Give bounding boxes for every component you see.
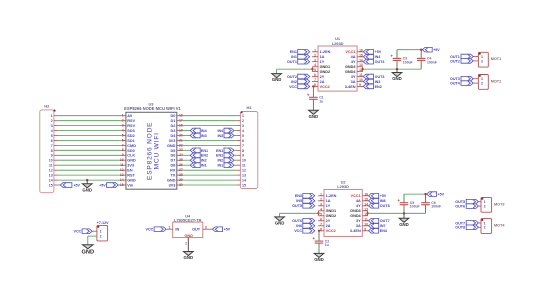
port IN4 (from U3) xyxy=(190,128,207,133)
svg-text:4Y: 4Y xyxy=(351,60,356,64)
svg-text:100nF: 100nF xyxy=(427,60,437,64)
svg-text:+5V: +5V xyxy=(433,48,440,52)
H2 pin stubs xyxy=(54,116,58,185)
+5V flag at U3 Vin xyxy=(99,183,122,188)
svg-text:1: 1 xyxy=(484,200,486,204)
svg-text:D1: D1 xyxy=(171,119,176,123)
svg-text:D8: D8 xyxy=(171,164,176,168)
+5V flag at top rail xyxy=(422,47,440,52)
svg-text:OUT2: OUT2 xyxy=(450,59,460,63)
wire H2 pin 9 to U3 pin 9 xyxy=(58,154,122,156)
svg-text:1-2EN: 1-2EN xyxy=(320,50,331,54)
wire H2 pin 6 to U3 pin 6 xyxy=(58,139,122,141)
svg-text:D6: D6 xyxy=(171,154,176,158)
port EN1 (from U3) xyxy=(190,148,208,153)
wire U3 pin 24 to port EN2 xyxy=(182,154,191,156)
svg-text:GND2: GND2 xyxy=(320,70,331,74)
+5V flag at H2 pin 15 xyxy=(58,183,81,188)
svg-text:OUT8: OUT8 xyxy=(455,226,465,230)
wire U3 pin 20 to port IN3 xyxy=(182,135,191,137)
wire U3 pin 21 to H1 pin 6 xyxy=(182,139,237,141)
svg-text:8: 8 xyxy=(242,149,244,153)
port IN8 at U2 xyxy=(369,199,386,204)
svg-text:+5V: +5V xyxy=(99,183,106,187)
wire H2 pin 8 to U3 pin 8 xyxy=(58,149,122,151)
svg-text:8: 8 xyxy=(51,149,53,153)
svg-text:1: 1 xyxy=(242,114,244,118)
svg-text:2: 2 xyxy=(484,205,486,209)
svg-text:D5: D5 xyxy=(171,149,176,153)
port VCC at U4 input xyxy=(146,227,167,232)
svg-text:9: 9 xyxy=(242,154,244,158)
svg-text:OUT5: OUT5 xyxy=(455,200,465,204)
svg-text:VCC: VCC xyxy=(74,230,82,234)
wire +5V top rail xyxy=(397,49,421,51)
wire U3 pin 28 to H1 pin 13 xyxy=(182,174,237,176)
svg-text:RSV: RSV xyxy=(127,124,135,128)
svg-text:15: 15 xyxy=(242,183,246,187)
svg-text:3-4EN: 3-4EN xyxy=(350,229,361,233)
port VCC at U1 xyxy=(289,84,310,89)
capacitor C1 1u xyxy=(307,86,324,110)
port IN1 (to H1) xyxy=(217,163,234,168)
svg-text:GND: GND xyxy=(82,187,92,192)
svg-text:GND4: GND4 xyxy=(345,70,356,74)
port EN3 at U2 xyxy=(295,194,315,199)
svg-text:1Y: 1Y xyxy=(320,60,325,64)
port IN1 at U1 xyxy=(291,55,310,60)
svg-text:3-4EN: 3-4EN xyxy=(345,85,356,89)
svg-text:EN1: EN1 xyxy=(201,149,208,153)
svg-text:2: 2 xyxy=(51,119,53,123)
svg-text:14: 14 xyxy=(242,179,246,183)
port EN1 (to H1) xyxy=(216,148,234,153)
svg-text:GND3: GND3 xyxy=(345,65,356,69)
svg-text:IN4: IN4 xyxy=(201,129,208,133)
svg-text:OUT4: OUT4 xyxy=(375,60,386,64)
svg-text:100uF: 100uF xyxy=(403,60,413,64)
ground below C2 xyxy=(314,253,324,262)
svg-text:VCC1: VCC1 xyxy=(351,194,361,198)
port OUT6 at U2 xyxy=(292,219,315,224)
svg-text:+5V: +5V xyxy=(73,183,80,187)
wire VCC to U4 IN xyxy=(166,228,173,230)
wire H2 pin 7 to U3 pin 7 xyxy=(58,144,122,146)
svg-text:4Y: 4Y xyxy=(356,204,361,208)
capacitor C3 100uF xyxy=(390,50,412,69)
svg-text:IN2: IN2 xyxy=(217,159,223,163)
svg-text:IN1: IN1 xyxy=(291,55,297,59)
svg-text:10: 10 xyxy=(49,159,53,163)
port OUT6 at MOT3 xyxy=(455,204,478,209)
svg-text:H1: H1 xyxy=(247,105,253,110)
svg-text:D7: D7 xyxy=(171,159,176,163)
svg-text:+5V: +5V xyxy=(224,228,231,232)
+5V flag at U4 output xyxy=(212,227,230,232)
svg-text:10: 10 xyxy=(242,159,246,163)
svg-text:OUT8: OUT8 xyxy=(380,204,390,208)
svg-text:IN8: IN8 xyxy=(380,199,386,203)
svg-text:GND: GND xyxy=(184,234,193,238)
U3 left pin numbers 1-15 xyxy=(120,114,124,187)
svg-text:VCC: VCC xyxy=(289,85,297,89)
svg-text:1-2EN: 1-2EN xyxy=(326,194,337,198)
svg-text:100uF: 100uF xyxy=(410,205,420,209)
svg-text:GND: GND xyxy=(127,179,136,183)
svg-text:1A: 1A xyxy=(320,55,325,59)
wire U3 pin 29 to H1 pin 14 xyxy=(182,179,237,181)
ground below C1 xyxy=(309,110,319,119)
port IN4 at U1 xyxy=(363,55,381,60)
svg-text:H2: H2 xyxy=(44,104,50,109)
battery connector +7-12V xyxy=(97,221,110,241)
wire H2 pin 2 to U3 pin 2 xyxy=(58,120,122,122)
svg-text:IN2: IN2 xyxy=(291,80,297,84)
svg-text:SD0: SD0 xyxy=(127,149,134,153)
svg-text:GND: GND xyxy=(127,159,136,163)
svg-text:IN2: IN2 xyxy=(201,159,207,163)
svg-text:OUT6: OUT6 xyxy=(455,205,465,209)
svg-text:1: 1 xyxy=(51,114,53,118)
svg-text:2Y: 2Y xyxy=(326,219,331,223)
svg-text:OUT5: OUT5 xyxy=(292,204,302,208)
svg-text:GND: GND xyxy=(167,179,176,183)
wire H2 pin 3 to U3 pin 3 xyxy=(58,125,122,127)
wire U3 pin 23 to port EN1 xyxy=(182,149,191,151)
svg-text:1: 1 xyxy=(481,77,483,81)
svg-text:MOT2: MOT2 xyxy=(491,79,502,83)
svg-text:A0: A0 xyxy=(127,114,132,118)
capacitor C4 100nF xyxy=(417,50,437,69)
svg-text:EN1: EN1 xyxy=(290,50,297,54)
svg-text:3Y: 3Y xyxy=(351,75,356,79)
svg-text:VCC: VCC xyxy=(294,229,302,233)
svg-text:ESP8266 NODE MCU WIFI V1: ESP8266 NODE MCU WIFI V1 xyxy=(124,106,181,111)
port EN4 at U2 xyxy=(369,229,388,234)
svg-text:OUT3: OUT3 xyxy=(375,75,385,79)
svg-text:2: 2 xyxy=(481,82,483,86)
port OUT4 at MOT2 xyxy=(450,81,473,86)
U1 GND1 GND2 tie xyxy=(311,67,318,72)
ground at U4 GND pin xyxy=(184,238,194,261)
svg-text:D2: D2 xyxy=(171,124,176,128)
svg-text:GND: GND xyxy=(392,76,402,81)
svg-text:EN2: EN2 xyxy=(201,154,208,158)
port IN2 at U1 xyxy=(291,79,310,84)
svg-text:Vin: Vin xyxy=(127,183,134,187)
svg-text:EN3: EN3 xyxy=(295,194,302,198)
U2 GND3 GND4 tie xyxy=(362,211,369,216)
svg-text:9: 9 xyxy=(51,154,53,158)
port VCC at U2 xyxy=(294,229,315,234)
ground at C3 C4 rail xyxy=(392,69,402,81)
svg-text:SD2: SD2 xyxy=(127,134,134,138)
junction at U2 VCC2 xyxy=(318,230,320,232)
svg-text:1: 1 xyxy=(484,221,486,225)
svg-text:D3: D3 xyxy=(171,129,176,133)
wire port IN3 to H1 pin 5 xyxy=(234,135,236,137)
motor driver U1 xyxy=(314,36,363,91)
wire port IN4 to H1 pin 4 xyxy=(234,130,236,132)
junction C3 bottom xyxy=(396,68,398,70)
svg-text:MOT1: MOT1 xyxy=(491,57,502,61)
motor driver U2 xyxy=(320,180,368,237)
svg-text:7: 7 xyxy=(242,144,244,148)
svg-text:3V3: 3V3 xyxy=(169,139,176,143)
wire H2 pin 14 to U3 pin 14 xyxy=(58,179,122,181)
wire U3 pin 27 to H1 pin 12 xyxy=(182,169,237,171)
port OUT1 at MOT1 xyxy=(450,54,473,59)
connector H1 xyxy=(240,105,257,188)
svg-text:+5V: +5V xyxy=(380,194,387,198)
svg-text:1: 1 xyxy=(481,55,483,59)
connector H2 xyxy=(40,104,56,193)
wire port EN2 to H1 pin 9 xyxy=(234,154,236,156)
svg-text:IN3: IN3 xyxy=(201,134,207,138)
svg-text:5: 5 xyxy=(51,134,53,138)
svg-text:2A: 2A xyxy=(326,224,331,228)
svg-text:GND: GND xyxy=(275,221,285,226)
svg-text:L7805CD2T-TR: L7805CD2T-TR xyxy=(174,217,202,222)
wire U3 pin 22 to H1 pin 7 xyxy=(182,144,237,146)
svg-text:4A: 4A xyxy=(356,199,361,203)
svg-text:6: 6 xyxy=(242,139,244,143)
svg-text:GND3: GND3 xyxy=(350,209,361,213)
wire port IN2 to H1 pin 10 xyxy=(234,159,236,161)
capacitor C2 1u xyxy=(312,231,329,254)
svg-text:GND: GND xyxy=(184,255,194,260)
U3 right pin numbers 16-30 xyxy=(179,114,183,187)
svg-text:GND4: GND4 xyxy=(350,214,361,218)
port IN5 at U2 xyxy=(296,199,315,204)
port EN2 (to H1) xyxy=(216,153,234,158)
svg-text:EN1: EN1 xyxy=(216,149,223,153)
svg-text:3: 3 xyxy=(242,124,244,128)
svg-text:IN6: IN6 xyxy=(296,224,302,228)
svg-text:7: 7 xyxy=(51,144,53,148)
connector MOT1 xyxy=(473,52,501,67)
svg-text:IN7: IN7 xyxy=(380,224,386,228)
port EN1 at U1 xyxy=(290,50,310,55)
wire +5V rail (bottom) xyxy=(404,193,426,195)
capacitor C5 100uF xyxy=(397,194,419,213)
wire port IN1 to H1 pin 11 xyxy=(234,164,236,166)
svg-text:3A: 3A xyxy=(351,80,356,84)
svg-text:GND: GND xyxy=(272,77,282,82)
svg-text:IN1: IN1 xyxy=(201,164,207,168)
U3 pin stubs xyxy=(122,116,182,185)
port VCC at battery xyxy=(74,229,93,234)
connector MOT2 xyxy=(473,75,501,90)
port IN4 (to H1) xyxy=(217,128,234,133)
wire U2 GND rail xyxy=(368,212,426,214)
svg-text:GND1: GND1 xyxy=(320,65,331,69)
svg-text:IN1: IN1 xyxy=(217,164,223,168)
svg-text:14: 14 xyxy=(49,179,53,183)
svg-text:3: 3 xyxy=(51,124,53,128)
svg-text:GND: GND xyxy=(314,257,324,262)
junction C6 top xyxy=(424,193,426,195)
svg-text:OUT2: OUT2 xyxy=(287,75,297,79)
wire H2 pin 5 to U3 pin 5 xyxy=(58,135,122,137)
svg-text:RSV: RSV xyxy=(127,119,135,123)
port EN2 at U1 xyxy=(363,84,381,89)
svg-text:2: 2 xyxy=(242,119,244,123)
junction node on GND wire (row 14) xyxy=(86,179,88,181)
svg-text:IN: IN xyxy=(175,228,179,232)
ground below row 14 xyxy=(82,180,92,192)
wire U3 pin 18 to H1 pin 3 xyxy=(182,125,237,127)
svg-text:+5V: +5V xyxy=(375,50,382,54)
wire H2 pin 13 to U3 pin 13 xyxy=(58,174,122,176)
port OUT3 at U1 xyxy=(363,74,384,79)
svg-text:GND2: GND2 xyxy=(326,214,337,218)
svg-text:CLK: CLK xyxy=(127,154,135,158)
svg-text:MOT4: MOT4 xyxy=(494,224,505,228)
port OUT2 at MOT1 xyxy=(450,59,473,64)
wire H2 pin 10 to U3 pin 10 xyxy=(58,159,122,161)
ESP8266 NodeMCU module U3 xyxy=(124,102,181,190)
junction at U1 VCC2 xyxy=(312,85,314,87)
svg-text:GND: GND xyxy=(399,222,409,227)
svg-text:OUT7: OUT7 xyxy=(380,219,390,223)
+5V flag at U2 VCC1 xyxy=(369,194,387,199)
U2 pin stubs xyxy=(318,196,368,231)
svg-text:GND: GND xyxy=(81,250,94,256)
svg-text:12: 12 xyxy=(242,169,246,173)
junction C5 bottom xyxy=(403,212,405,214)
svg-text:13: 13 xyxy=(242,174,246,178)
svg-text:+5V: +5V xyxy=(438,193,445,197)
wire VCC port to battery pin 1 xyxy=(92,230,97,232)
svg-text:4: 4 xyxy=(242,129,244,133)
svg-text:1: 1 xyxy=(169,225,171,229)
port OUT7 at MOT4 xyxy=(455,221,478,226)
svg-text:SD3: SD3 xyxy=(127,129,134,133)
svg-text:1A: 1A xyxy=(326,199,331,203)
port IN2 (from U3) xyxy=(190,158,206,163)
capacitor C6 100nF xyxy=(421,194,441,213)
wire U4 OUT to +5V xyxy=(203,228,213,230)
svg-text:3V3: 3V3 xyxy=(169,183,176,187)
svg-text:1Y: 1Y xyxy=(326,204,331,208)
+5V flag at bottom rail xyxy=(427,192,445,197)
svg-text:IN3: IN3 xyxy=(217,134,223,138)
port OUT5 at U2 xyxy=(292,204,315,209)
svg-text:GND1: GND1 xyxy=(326,209,337,213)
wire battery pin 2 to ground xyxy=(88,236,97,245)
svg-text:11: 11 xyxy=(242,164,246,168)
ground at U1 left xyxy=(272,74,282,83)
port IN2 (to H1) xyxy=(217,158,234,163)
svg-text:6: 6 xyxy=(51,139,53,143)
svg-text:IN5: IN5 xyxy=(296,199,302,203)
svg-text:2Y: 2Y xyxy=(320,75,325,79)
svg-text:EN2: EN2 xyxy=(375,85,382,89)
svg-text:11: 11 xyxy=(49,164,53,168)
wire U2 GND to ground xyxy=(280,213,319,217)
svg-text:EN4: EN4 xyxy=(380,229,388,233)
wire U1 GND rail xyxy=(363,68,422,70)
svg-text:TX: TX xyxy=(171,174,176,178)
svg-text:OUT1: OUT1 xyxy=(450,55,460,59)
svg-text:EN2: EN2 xyxy=(216,154,223,158)
U1 pin stubs xyxy=(312,52,363,87)
svg-text:3: 3 xyxy=(205,225,207,229)
connector MOT4 xyxy=(478,219,505,234)
svg-text:4: 4 xyxy=(51,129,53,133)
svg-text:L293D: L293D xyxy=(337,184,349,189)
svg-text:OUT7: OUT7 xyxy=(455,221,465,225)
svg-text:EN: EN xyxy=(127,169,133,173)
wire H2 pin 12 to U3 pin 12 xyxy=(58,169,122,171)
port IN3 at U1 xyxy=(363,79,380,84)
port OUT8 at MOT4 xyxy=(455,225,478,230)
port IN1 (from U3) xyxy=(190,163,206,168)
svg-text:5: 5 xyxy=(242,134,244,138)
svg-text:VCC2: VCC2 xyxy=(326,229,336,233)
port OUT5 at MOT3 xyxy=(455,199,478,204)
port IN3 (to H1) xyxy=(217,133,234,138)
port OUT3 at MOT2 xyxy=(450,76,473,81)
port IN6 at U2 xyxy=(296,224,315,229)
port EN2 (from U3) xyxy=(190,153,208,158)
port OUT1 at U1 xyxy=(287,59,310,64)
port OUT4 at U1 xyxy=(363,59,385,64)
wire U3 pin 25 to port IN2 xyxy=(182,159,191,161)
svg-text:100nF: 100nF xyxy=(431,205,441,209)
wire H2 pin 4 to U3 pin 4 xyxy=(58,130,122,132)
svg-text:1u: 1u xyxy=(319,99,323,103)
svg-text:+7-12V: +7-12V xyxy=(97,221,110,225)
svg-text:OUT1: OUT1 xyxy=(287,60,297,64)
svg-text:D0: D0 xyxy=(171,114,176,118)
svg-text:MOT3: MOT3 xyxy=(494,202,505,206)
svg-text:1: 1 xyxy=(100,230,102,234)
svg-text:OUT6: OUT6 xyxy=(292,219,302,223)
junction C4 top xyxy=(420,49,422,51)
svg-text:2: 2 xyxy=(185,241,187,245)
ground at U2 left xyxy=(275,217,285,226)
svg-text:RX: RX xyxy=(170,169,176,173)
svg-text:12: 12 xyxy=(49,169,53,173)
wire U3 pin 19 to port IN4 xyxy=(182,130,191,132)
ground at battery xyxy=(81,245,94,256)
svg-text:VCC2: VCC2 xyxy=(320,85,330,89)
svg-text:RST: RST xyxy=(127,174,135,178)
svg-text:OUT: OUT xyxy=(192,228,201,232)
svg-text:13: 13 xyxy=(49,174,53,178)
svg-text:OUT3: OUT3 xyxy=(450,77,460,81)
wire U3 pin 26 to port IN1 xyxy=(182,164,191,166)
svg-text:OUT4: OUT4 xyxy=(450,82,461,86)
svg-text:IN3: IN3 xyxy=(375,80,381,84)
svg-text:SD1: SD1 xyxy=(127,139,134,143)
port OUT8 at U2 xyxy=(369,204,390,209)
svg-text:GND: GND xyxy=(167,144,176,148)
regulator U4 L7805CD2T-TR xyxy=(169,213,207,245)
svg-text:3A: 3A xyxy=(356,224,361,228)
U1 GND3 GND4 tie xyxy=(357,67,364,72)
svg-text:1u: 1u xyxy=(325,243,329,247)
svg-text:GND: GND xyxy=(309,114,319,119)
wire U3 pin 30 to H1 pin 15 xyxy=(182,184,237,186)
port IN7 at U2 xyxy=(369,224,386,229)
svg-text:2: 2 xyxy=(484,226,486,230)
svg-text:3Y: 3Y xyxy=(356,219,361,223)
port OUT2 at U1 xyxy=(287,74,310,79)
svg-text:2: 2 xyxy=(100,235,102,239)
